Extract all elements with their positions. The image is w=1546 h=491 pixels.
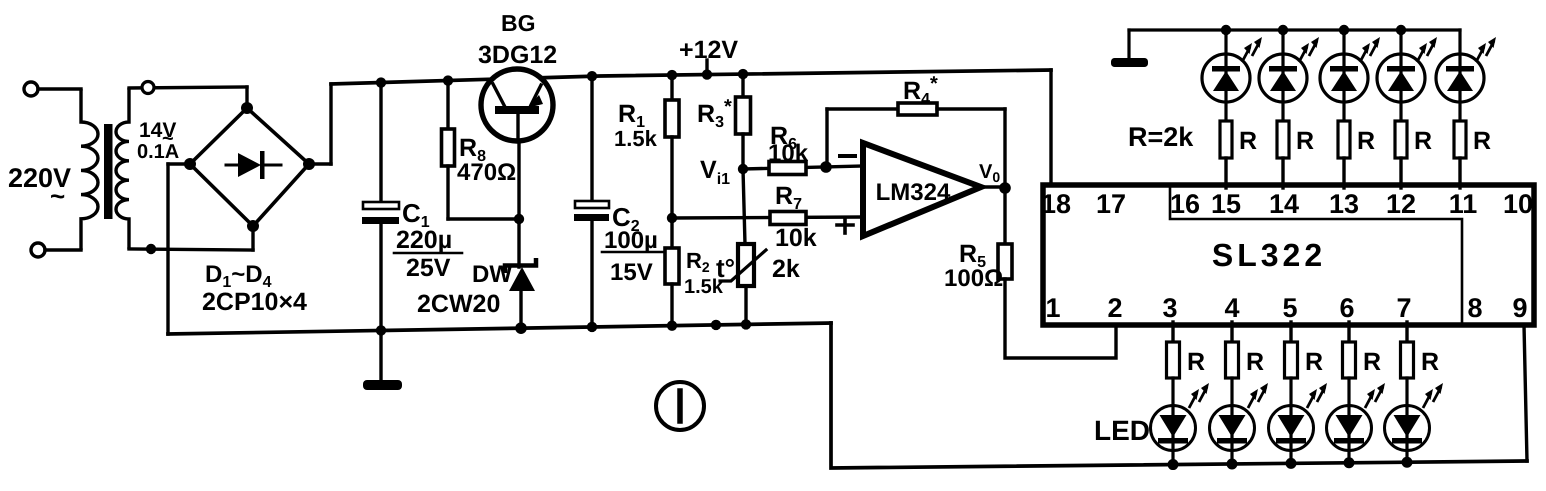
svg-text:10k: 10k bbox=[768, 140, 809, 167]
svg-text:0.1A: 0.1A bbox=[137, 141, 179, 163]
svg-text:10: 10 bbox=[1503, 189, 1533, 219]
resistor R3 bbox=[736, 97, 751, 134]
wire LED top rail bbox=[1129, 28, 1460, 31]
wire ground stem bbox=[379, 330, 382, 382]
transistor Q1 BG circle bbox=[481, 69, 553, 141]
junction R2 bottom rail bbox=[667, 320, 677, 330]
resistor R2 bbox=[665, 248, 679, 284]
junction LED2 top rail bbox=[1278, 25, 1288, 35]
resistor R8 bbox=[442, 129, 455, 166]
LED D7 (bottom row) bbox=[1210, 406, 1255, 451]
svg-text:6: 6 bbox=[1339, 293, 1354, 323]
svg-text:LED: LED bbox=[1094, 415, 1150, 446]
svg-text:13: 13 bbox=[1329, 189, 1359, 219]
svg-text:LM324: LM324 bbox=[876, 179, 951, 206]
IC U2 inner partition bbox=[1170, 187, 1462, 322]
junction node Vi1 bbox=[738, 164, 748, 174]
wire top rail to SL322 pin18 bbox=[1049, 70, 1052, 186]
wire R8 top bbox=[446, 81, 449, 129]
wire pin to resistor (LED6) bbox=[1171, 322, 1174, 342]
svg-text:1: 1 bbox=[1045, 293, 1060, 323]
svg-text:12: 12 bbox=[1386, 189, 1416, 219]
svg-text:+12V: +12V bbox=[679, 36, 738, 64]
AC input terminal top bbox=[24, 82, 38, 96]
wire bridge right to top rail bbox=[309, 162, 331, 165]
svg-text:2CP10×4: 2CP10×4 bbox=[202, 288, 307, 316]
junction zener bottom rail bbox=[515, 322, 527, 334]
wire secondary top to bridge bbox=[129, 87, 247, 88]
svg-text:BG: BG bbox=[501, 10, 536, 36]
resistor R (LED10) bbox=[1401, 342, 1414, 378]
svg-text:5: 5 bbox=[1282, 293, 1297, 323]
marker circled 1 bbox=[656, 382, 704, 430]
wire R8 bottom to base node bbox=[446, 166, 449, 219]
LED D5 (top row) bbox=[1436, 54, 1484, 102]
LED D10 light arrows bbox=[1423, 393, 1431, 408]
junction LED1 top rail bbox=[1221, 25, 1231, 35]
wire terminal-bottom to primary bbox=[45, 248, 81, 251]
svg-text:R: R bbox=[1296, 127, 1314, 155]
junction LED8 return rail bbox=[1286, 458, 1297, 469]
svg-text:9: 9 bbox=[1512, 293, 1527, 323]
wire BG base lead down to zener bbox=[517, 113, 520, 267]
wire thermistor bottom bbox=[744, 286, 747, 324]
transistor Q1 internals bbox=[495, 106, 539, 114]
svg-text:R: R bbox=[1246, 348, 1264, 376]
wire C1 bottom bbox=[379, 224, 382, 330]
wire R5 to SL322 pin2 bbox=[1005, 279, 1116, 358]
svg-text:R: R bbox=[1187, 348, 1205, 376]
resistor R6 bbox=[769, 162, 806, 175]
wire ground rail down to LED return rail bbox=[831, 323, 1527, 468]
junction minus input node bbox=[820, 161, 832, 173]
ground symbol bbox=[363, 380, 402, 390]
LED D9 (bottom row) bbox=[1327, 406, 1372, 451]
wire bottom ground rail bbox=[168, 323, 831, 334]
junction C1 bottom rail bbox=[376, 325, 386, 335]
svg-text:2CW20: 2CW20 bbox=[417, 290, 500, 318]
svg-text:2: 2 bbox=[1107, 293, 1122, 323]
junction node V0 bbox=[999, 182, 1011, 194]
svg-text:18: 18 bbox=[1041, 189, 1071, 219]
junction R1 top rail bbox=[667, 70, 677, 80]
svg-text:100Ω: 100Ω bbox=[944, 265, 1003, 292]
wire R3 bottom to Vi1 bbox=[741, 134, 744, 169]
wire feedback to R4 bbox=[827, 107, 898, 110]
wire resistor to pin bbox=[1224, 158, 1227, 188]
resistor R1 bbox=[665, 100, 679, 137]
junction R8 top rail bbox=[443, 75, 453, 85]
transformer T1 core bbox=[104, 124, 113, 219]
wire R2 bottom bbox=[670, 284, 673, 326]
junction LED9 return rail bbox=[1344, 457, 1355, 468]
junction R1 R2 plus-line node bbox=[667, 213, 677, 223]
svg-text:1.5k: 1.5k bbox=[614, 126, 658, 151]
junction secondary bottom bbox=[146, 244, 156, 254]
wire R1 bottom to node bbox=[670, 137, 673, 218]
junction C1 top rail bbox=[376, 77, 386, 87]
wire Vi1 down to thermistor bbox=[743, 169, 745, 244]
wire secondary bottom to bridge bbox=[129, 249, 253, 250]
tap terminal on secondary top wire bbox=[142, 82, 154, 94]
wire top supply rail bbox=[331, 70, 1051, 84]
wire R3 top bbox=[741, 74, 744, 97]
svg-text:R: R bbox=[1239, 127, 1257, 155]
resistor R (LED8) bbox=[1285, 342, 1298, 378]
junction bridge top bbox=[241, 102, 253, 114]
LED D4 light arrows bbox=[1417, 47, 1425, 62]
wire pin to resistor (LED7) bbox=[1230, 322, 1233, 342]
svg-text:100µ: 100µ bbox=[604, 227, 658, 254]
wire R2 top bbox=[670, 218, 673, 248]
junction thermistor bottom rail bbox=[741, 319, 751, 329]
LED D1 light arrows bbox=[1242, 47, 1250, 62]
LED D1 (top row) bbox=[1202, 54, 1250, 102]
junction bridge bottom bbox=[247, 220, 259, 232]
svg-text:17: 17 bbox=[1096, 189, 1126, 219]
wire pin to resistor (LED8) bbox=[1289, 322, 1292, 342]
svg-text:~: ~ bbox=[50, 181, 65, 211]
junction R3 top rail bbox=[738, 69, 748, 79]
svg-text:3: 3 bbox=[1162, 293, 1177, 323]
wire pin to resistor (LED9) bbox=[1347, 322, 1350, 342]
transformer T1 secondary coil bbox=[116, 88, 129, 249]
wire pin to resistor (LED10) bbox=[1405, 322, 1408, 342]
svg-text:10k: 10k bbox=[775, 224, 817, 252]
op-amp minus sign bbox=[840, 154, 855, 158]
LED D7 light arrows bbox=[1248, 393, 1256, 408]
resistor R (LED3) bbox=[1338, 121, 1350, 158]
wire terminal-top to primary bbox=[38, 87, 81, 90]
svg-text:15V: 15V bbox=[610, 259, 653, 286]
svg-text:R: R bbox=[1421, 348, 1439, 376]
wire SL322 pin9 to LED return rail bbox=[1524, 325, 1527, 461]
LED D4 (top row) bbox=[1377, 54, 1425, 102]
LED D2 light arrows bbox=[1299, 47, 1307, 62]
thermistor RT body bbox=[738, 244, 754, 286]
svg-text:8: 8 bbox=[1467, 293, 1482, 323]
svg-text:t°: t° bbox=[716, 253, 735, 283]
svg-text:D1~D4: D1~D4 bbox=[205, 261, 272, 291]
svg-text:4: 4 bbox=[1224, 293, 1239, 323]
svg-text:R: R bbox=[1473, 127, 1491, 155]
wire zener to ground rail bbox=[519, 291, 522, 328]
junction LED3 top rail bbox=[1339, 25, 1349, 35]
svg-text:R: R bbox=[1357, 127, 1375, 155]
resistor R (LED9) bbox=[1343, 342, 1356, 378]
svg-text:R=2k: R=2k bbox=[1128, 122, 1194, 152]
junction bridge left bbox=[184, 158, 196, 170]
wire R1 top bbox=[670, 75, 673, 100]
LED D6 (bottom row) bbox=[1151, 406, 1196, 451]
op-amp U1 LM324 bbox=[863, 143, 981, 236]
capacitor C1 bbox=[363, 202, 399, 209]
svg-text:3DG12: 3DG12 bbox=[478, 41, 557, 69]
junction base node bbox=[514, 214, 524, 224]
resistor R (LED6) bbox=[1167, 342, 1180, 378]
junction +12V rail bbox=[702, 69, 712, 79]
capacitor C2 bbox=[575, 201, 609, 208]
LED D8 (bottom row) bbox=[1269, 406, 1314, 451]
LED D9 light arrows bbox=[1365, 393, 1373, 408]
svg-text:2k: 2k bbox=[772, 255, 800, 283]
svg-text:25V: 25V bbox=[406, 254, 451, 282]
junction LED4 top rail bbox=[1396, 25, 1406, 35]
ground symbol top right bbox=[1127, 30, 1130, 59]
resistor R (LED4) bbox=[1395, 121, 1407, 158]
thermistor RT arrow bbox=[720, 250, 766, 281]
LED D10 (bottom row) bbox=[1385, 406, 1430, 451]
wire feedback up bbox=[825, 109, 828, 167]
junction LED7 return rail bbox=[1227, 458, 1238, 469]
op-amp plus sign bbox=[837, 223, 853, 227]
LED D3 (top row) bbox=[1320, 54, 1368, 102]
wire resistor to pin bbox=[1458, 158, 1461, 188]
svg-text:DW: DW bbox=[472, 261, 512, 288]
svg-text:11: 11 bbox=[1449, 189, 1478, 219]
wire V0 to R5 bbox=[1003, 187, 1006, 244]
wire +12V stem bbox=[705, 60, 708, 75]
transformer T1 primary coil bbox=[81, 89, 98, 250]
AC input terminal bottom bbox=[31, 243, 45, 257]
bridge rectifier diamond bbox=[190, 108, 309, 226]
svg-text:R: R bbox=[1363, 348, 1381, 376]
wire C2 top bbox=[590, 76, 593, 202]
svg-text:R: R bbox=[1414, 127, 1432, 155]
bridge diode symbol bbox=[226, 164, 240, 167]
resistor R (LED1) bbox=[1220, 121, 1232, 158]
svg-text:SL322: SL322 bbox=[1212, 237, 1326, 273]
IC U2 SL322 outline bbox=[1043, 185, 1534, 325]
svg-text:470Ω: 470Ω bbox=[457, 159, 516, 186]
svg-text:16: 16 bbox=[1170, 189, 1200, 219]
resistor R (LED7) bbox=[1226, 342, 1239, 378]
junction LED10 return rail bbox=[1402, 457, 1413, 468]
junction bridge right bbox=[303, 158, 315, 170]
wire resistor to pin bbox=[1399, 158, 1402, 188]
LED D2 (top row) bbox=[1259, 54, 1307, 102]
wire op-amp output bbox=[981, 185, 1005, 188]
wire R4 to output node bbox=[937, 107, 1005, 110]
wire bridge left to ground rail bbox=[168, 162, 190, 165]
zener diode DW bbox=[505, 258, 536, 273]
svg-text:15: 15 bbox=[1211, 189, 1241, 219]
resistor R (LED2) bbox=[1277, 121, 1289, 158]
wire C1 top bbox=[379, 83, 382, 204]
svg-text:14: 14 bbox=[1269, 189, 1299, 219]
svg-text:220µ: 220µ bbox=[396, 226, 452, 254]
LED D3 light arrows bbox=[1360, 47, 1368, 62]
junction stray dot on rail bbox=[711, 320, 721, 330]
junction C2 bottom rail bbox=[587, 322, 597, 332]
wire C2 bottom bbox=[590, 221, 593, 327]
wire Vi1 to R6 to minus input bbox=[743, 166, 863, 169]
LED D5 light arrows bbox=[1476, 47, 1484, 62]
resistor R (LED5) bbox=[1454, 121, 1466, 158]
wire resistor to pin bbox=[1281, 158, 1284, 188]
svg-text:R: R bbox=[1305, 348, 1323, 376]
resistor R7 bbox=[770, 212, 806, 225]
resistor R4 bbox=[898, 103, 937, 115]
wire plus input line bbox=[672, 217, 863, 218]
junction C2 top rail bbox=[587, 71, 597, 81]
LED D8 light arrows bbox=[1307, 393, 1315, 408]
svg-text:7: 7 bbox=[1396, 293, 1411, 323]
junction LED6 return rail bbox=[1168, 459, 1179, 470]
wire resistor to pin bbox=[1342, 158, 1345, 188]
LED D6 light arrows bbox=[1189, 393, 1197, 408]
resistor R5 bbox=[998, 244, 1012, 279]
